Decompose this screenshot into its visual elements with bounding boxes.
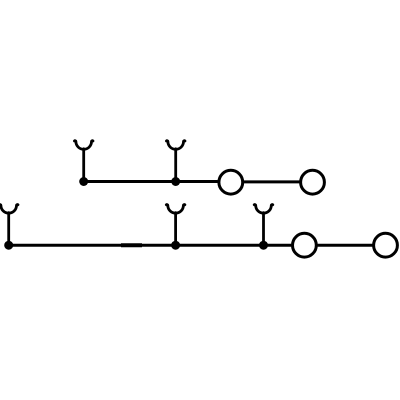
clamp contact D (level 2 middle): [166, 205, 185, 246]
test socket 1 (level 1 left): [219, 170, 243, 194]
test socket 2 (level 1 right): [301, 170, 325, 194]
wire bus level 1 (fork A to socket 1): [84, 180, 218, 183]
junction E: [259, 241, 268, 250]
test socket 4 (level 2 right): [374, 233, 398, 257]
junction B: [171, 177, 180, 186]
clamp contact A (level 1 left): [74, 141, 93, 182]
test socket 3 (level 2 left): [293, 233, 317, 257]
junction D: [171, 241, 180, 250]
clamp contact C (level 2 left): [0, 205, 18, 246]
clamp contact E (level 2 right): [254, 205, 273, 246]
junction A: [79, 177, 88, 186]
clamp contact B (level 1 middle): [166, 141, 185, 182]
wire level 2 overlap segment: [121, 243, 142, 247]
wire level 1 link (socket 1 to socket 2): [244, 180, 300, 183]
junction C: [4, 241, 13, 250]
wire bus level 2 (fork C to socket 3): [9, 244, 292, 247]
wire level 2 link (socket 3 to socket 4): [317, 244, 373, 247]
